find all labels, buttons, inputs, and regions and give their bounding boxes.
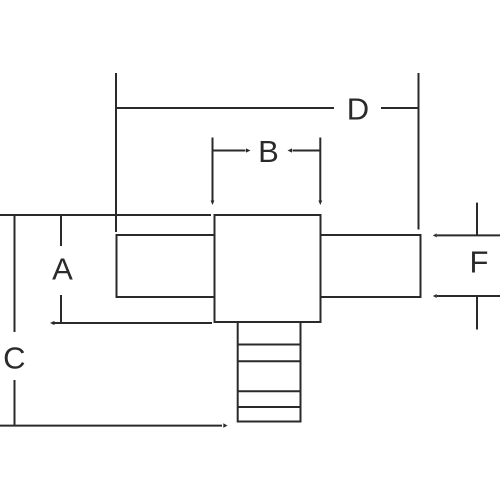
dimension B line left segment [213,150,246,152]
barb ridge 2 [238,360,301,362]
dimension F top extension line [437,234,500,236]
dimension C bottom extension line [0,425,222,427]
dimension F bottom extension line [437,295,500,297]
dimension C upper line segment [14,215,16,332]
arrow B left (points right) [246,148,251,152]
dimension D left extension line [115,73,117,232]
dimension A upper tick [60,215,62,246]
left port [117,235,215,297]
svg-text:D: D [347,92,369,127]
arrow F bottom (points left) [433,294,437,298]
barb ridge 3 [238,390,301,392]
arrow B right tick tip (points down) [318,201,322,206]
dimension D right extension line [418,73,420,230]
dimension B left tick [212,138,214,203]
svg-text:A: A [52,252,73,287]
svg-text:C: C [3,341,25,376]
dimension F upper tick [476,203,478,236]
dimension D line right segment [381,107,419,109]
dimension D line left segment [116,107,334,109]
right port [321,235,421,297]
top extension line (A/C datum) [0,214,211,216]
arrow A extension (points left) [50,321,55,325]
dimension B right tick [319,138,321,203]
svg-text:B: B [258,134,279,169]
barb stem outline [238,322,301,422]
arrow F top (points left) [433,233,437,237]
dimension C lower line segment [14,380,16,426]
dimension F lower tick [476,296,478,330]
arrow B left tick tip (points down) [211,201,215,206]
barb ridge 1 [238,344,301,346]
dimension A lower tick [60,295,62,323]
dimension B line right segment [293,150,321,152]
body square [215,215,321,322]
barb ridge 4 [238,406,301,408]
arrow C extension (points right) [223,423,227,427]
dimension A bottom extension line [54,322,212,324]
svg-text:F: F [470,245,489,280]
arrow B right (points left) [288,148,293,152]
